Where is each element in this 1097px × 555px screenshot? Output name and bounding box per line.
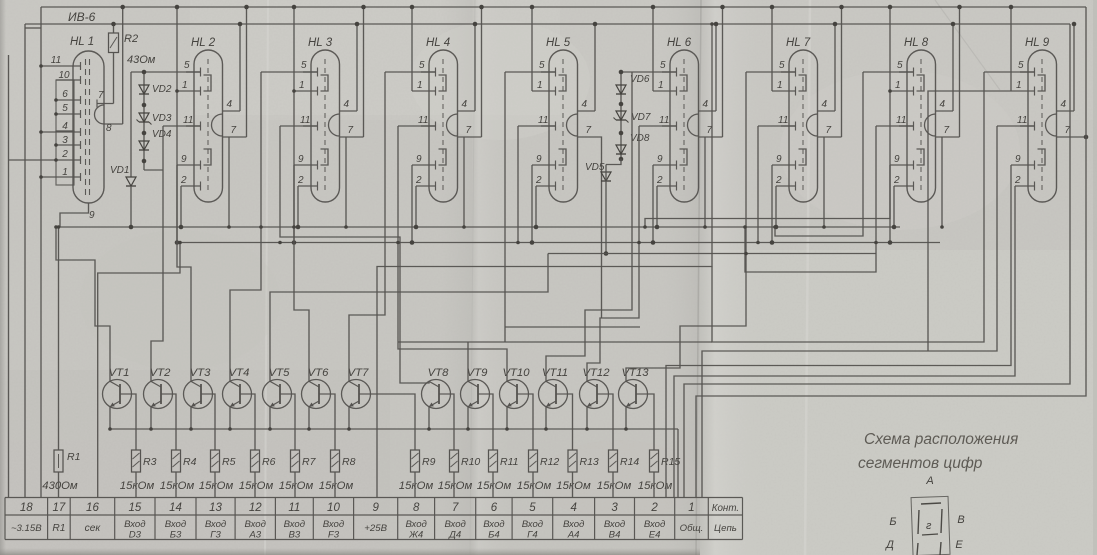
wire HL2 pin 1 feed from bus A (176, 7, 178, 91)
svg-text:15кОм: 15кОм (319, 480, 354, 492)
wire VT7 base to R9 (371, 394, 416, 450)
svg-text:3: 3 (62, 135, 68, 146)
svg-text:5: 5 (301, 60, 307, 71)
transistor VT2 (144, 380, 173, 409)
wire HL6 pin11 stub ext (639, 125, 677, 127)
svg-text:7: 7 (98, 90, 104, 101)
svg-text:сек: сек (85, 523, 102, 534)
wire heater bus 2 (178, 242, 940, 244)
diode VD3 (zener) (139, 113, 149, 122)
svg-text:2: 2 (297, 175, 304, 186)
HL6 pin 7 lead (699, 136, 723, 138)
svg-text:5: 5 (779, 60, 785, 71)
svg-text:R11: R11 (500, 456, 518, 468)
HL3 pin 2 stub (298, 185, 318, 187)
svg-text:14: 14 (169, 502, 182, 514)
wire nested net HL9 pin 9 (666, 165, 1011, 498)
resistor R6 15 kOhm (251, 450, 260, 472)
svg-text:HL 9: HL 9 (1025, 37, 1050, 49)
svg-text:F3: F3 (328, 530, 340, 541)
svg-text:5: 5 (539, 60, 545, 71)
svg-text:Вход: Вход (323, 519, 344, 530)
resistor R15 15 kOhm (650, 450, 659, 472)
svg-text:D3: D3 (129, 530, 142, 541)
wire VD2-VD4 chain vertical (143, 72, 145, 170)
resistor R10 15 kOhm (450, 450, 459, 472)
svg-text:VT3: VT3 (190, 367, 211, 379)
wire HL2 pin 9 drop to heater bus 2 (176, 165, 178, 243)
svg-text:HL 1: HL 1 (70, 36, 94, 48)
wire net to VT9 collector (504, 72, 506, 342)
junction dots VD chain 2 (619, 70, 624, 75)
svg-text:1: 1 (537, 80, 543, 91)
segment B (left) (918, 510, 919, 534)
wire VT12 base to R14 (609, 394, 614, 450)
svg-text:4: 4 (462, 99, 468, 110)
wire VT5 base to R7 (292, 394, 296, 450)
HL1 pin 2 (9, 159, 81, 161)
HL1 pin 1 (41, 176, 81, 178)
svg-text:ИВ-6: ИВ-6 (68, 10, 96, 24)
wire HL8 pin 2 drop to heater bus 1 (893, 186, 895, 227)
wire VT9 emitter to common bus (467, 407, 469, 429)
svg-text:~3.15В: ~3.15В (11, 523, 42, 534)
svg-text:HL 6: HL 6 (667, 37, 692, 49)
wire left vertical to pin 18 (~3.15V) (8, 55, 10, 498)
svg-text:1: 1 (688, 502, 694, 514)
svg-text:Д: Д (884, 539, 894, 551)
wire VT9 collector drop (467, 342, 469, 382)
svg-text:4: 4 (570, 502, 576, 514)
wire VT4 base to R6 (252, 394, 256, 450)
wire net to VT11 collector (546, 72, 632, 382)
svg-text:4: 4 (227, 99, 233, 110)
wire HL9 pin11 stub ext (997, 125, 1035, 127)
wire VT7 emitter to common bus (348, 407, 350, 429)
wire HL5 pin 2 drop to heater bus 1 (535, 186, 537, 227)
wire VT12 emitter to common bus (586, 407, 588, 429)
HL2 pin 11 stub (186, 125, 201, 127)
wire R1 top to heater bus 1 (58, 227, 60, 450)
HL9 pin 5 stub (1020, 71, 1035, 73)
wire net +25V feed (377, 24, 712, 498)
HL4 pin 1 stub (412, 90, 436, 92)
svg-text:HL 8: HL 8 (904, 37, 929, 49)
HL6 pin 4 lead (699, 110, 717, 112)
wire HL8 pin11 stub ext (876, 125, 914, 127)
svg-text:17: 17 (53, 502, 66, 514)
transistor VT1 (103, 380, 132, 409)
svg-text:Вход: Вход (522, 519, 543, 530)
wire HL7 pin 2 drop to heater bus 1 (775, 186, 777, 227)
svg-text:R9: R9 (422, 456, 436, 468)
indicator tube HL9 (1028, 50, 1057, 202)
svg-text:HL 4: HL 4 (426, 37, 450, 49)
segment diagram digit box (911, 496, 950, 555)
wire HL6 pin 1 feed from bus A (652, 7, 654, 91)
wire HL8 pin 4 riser to bus B (952, 24, 954, 111)
HL2 pin 7 lead (223, 136, 247, 138)
wire HL4 pin 1 feed from bus A (411, 7, 413, 91)
svg-text:+25В: +25В (364, 523, 387, 534)
svg-text:4: 4 (582, 99, 588, 110)
svg-text:7: 7 (586, 125, 592, 136)
indicator tube HL5 (549, 50, 578, 202)
wire VT11 emitter to common bus (545, 407, 547, 429)
HL1 pin group box lower (56, 131, 74, 185)
svg-text:Общ.: Общ. (680, 523, 704, 534)
wire VT8 emitter to common bus (428, 407, 430, 429)
wire top bus B (25, 23, 1070, 25)
svg-text:VT1: VT1 (109, 367, 130, 379)
wire R11 to terminal (492, 472, 494, 498)
transistor VT8 (422, 380, 451, 409)
transistor VT13 (619, 380, 648, 409)
wire net to VT12 collector (587, 126, 639, 382)
wire net to VT8 collector (280, 126, 429, 383)
svg-text:15кОм: 15кОм (438, 480, 473, 492)
svg-text:9: 9 (372, 502, 379, 514)
resistor R12 15 kOhm (529, 450, 538, 472)
wire VT11 base to R13 (568, 394, 573, 450)
transistor VT10 (500, 380, 529, 409)
svg-text:R1: R1 (67, 451, 80, 463)
resistor R5 15 kOhm (211, 450, 220, 472)
svg-text:4: 4 (940, 99, 946, 110)
wire HL6 pin 7 riser to bus A (722, 7, 724, 137)
wire R4 to terminal (175, 472, 177, 498)
svg-text:9: 9 (894, 154, 900, 165)
wire mid horizontal upper (548, 253, 876, 255)
svg-text:7: 7 (231, 125, 237, 136)
svg-text:5: 5 (529, 502, 536, 514)
wire net to VT5 collector (270, 254, 548, 382)
svg-text:3: 3 (611, 502, 618, 514)
HL1 pin 4 (41, 131, 81, 133)
svg-text:R14: R14 (620, 456, 639, 468)
wire long mid horizontal (398, 341, 712, 343)
HL7 pin 2 stub (776, 185, 796, 187)
wire HL3 pin 1 feed from bus A (293, 7, 295, 91)
diode VD2 (139, 85, 149, 94)
svg-text:4: 4 (822, 99, 828, 110)
HL6 pin 2 stub (657, 185, 677, 187)
wire HL3 pin5 stub ext (261, 71, 318, 73)
wire net to VT6 collector (294, 91, 309, 382)
svg-text:13: 13 (209, 502, 222, 514)
wire HL4 pin 7 branch to heater bus (463, 137, 465, 227)
transistor VT4 (223, 380, 252, 409)
HL8 pin 4 lead (936, 110, 954, 112)
transistor VT9 (461, 380, 490, 409)
resistor R7 15 kOhm (291, 450, 300, 472)
HL8 pin 7 lead (936, 136, 960, 138)
svg-text:7: 7 (452, 502, 459, 514)
svg-text:В4: В4 (609, 530, 621, 541)
svg-text:VD8: VD8 (630, 133, 650, 144)
svg-text:R6: R6 (262, 456, 276, 468)
wire HL4 pin11 stub ext (398, 125, 436, 127)
svg-text:15кОм: 15кОм (199, 480, 234, 492)
HL3 pin 5 stub (303, 71, 318, 73)
wire HL9 pin1 ext drop (928, 91, 1011, 351)
HL1 pin 5 (56, 113, 81, 115)
HL4 pin 9 stub (412, 164, 436, 166)
terminal table frame (5, 498, 743, 540)
HL9 pin 9 stub (1011, 164, 1035, 166)
junction dots VD chain (142, 70, 147, 75)
wire net HL7 to heater bus (757, 126, 759, 243)
HL5 pin 11 stub (541, 125, 556, 127)
svg-text:Вход: Вход (245, 519, 266, 530)
svg-text:А4: А4 (567, 530, 580, 541)
svg-text:15кОм: 15кОм (399, 480, 434, 492)
svg-text:VD3: VD3 (152, 113, 172, 124)
HL9 pin 7 lead to right edge (1057, 136, 1087, 138)
wire HL2 pin 7 riser to bus A (246, 7, 248, 137)
svg-text:А: А (925, 475, 933, 487)
svg-text:R5: R5 (222, 456, 236, 468)
svg-text:2: 2 (650, 502, 658, 514)
segment D (bottom left) (917, 543, 918, 555)
svg-text:г: г (926, 520, 932, 532)
svg-text:2: 2 (415, 175, 422, 186)
svg-text:Г4: Г4 (527, 530, 538, 541)
wire HL7 pin11 stub ext (758, 125, 796, 127)
wire R5 to terminal (214, 472, 216, 498)
svg-text:5: 5 (184, 60, 190, 71)
svg-text:7: 7 (826, 125, 832, 136)
wire VT5 emitter to common bus (269, 407, 271, 429)
svg-text:6: 6 (491, 502, 498, 514)
wire HL1 grid stub link (25, 27, 41, 29)
svg-text:R10: R10 (461, 456, 480, 468)
svg-text:18: 18 (20, 502, 33, 514)
wire R2 bottom to HL1 pin 7 (113, 53, 115, 104)
indicator tube HL3 (311, 50, 340, 202)
wire HL4 pin 7 riser to bus A (481, 7, 483, 137)
HL3 pin 1 stub (294, 90, 318, 92)
wire HL3 pin 2 drop to heater bus 1 (297, 186, 299, 227)
wire HL3 pin 7 branch to heater bus (345, 137, 347, 227)
wire heater bus 1 (56, 226, 900, 228)
resistor R9 15 kOhm (411, 450, 420, 472)
svg-text:Вход: Вход (563, 519, 584, 530)
wire VT6 base to R8 (331, 394, 336, 450)
segment E (bottom right) (940, 542, 941, 555)
wire nested net HL9 pin 2 (674, 186, 1015, 498)
svg-text:R2: R2 (124, 33, 138, 45)
svg-text:1: 1 (417, 80, 423, 91)
svg-text:VT6: VT6 (308, 367, 329, 379)
wire VT2 base to R4 (173, 394, 177, 450)
wire R15 to terminal (653, 472, 655, 498)
wire VT4 emitter to common bus (229, 407, 231, 429)
svg-text:VD1: VD1 (110, 165, 129, 176)
svg-text:Вход: Вход (205, 519, 226, 530)
svg-text:43Ом: 43Ом (127, 54, 156, 66)
diode VD6 (616, 85, 626, 94)
resistor R8 15 kOhm (331, 450, 340, 472)
svg-text:9: 9 (1015, 154, 1021, 165)
HL6 pin 9 stub (653, 164, 677, 166)
svg-text:2: 2 (893, 175, 900, 186)
svg-text:В: В (957, 514, 964, 526)
svg-text:15кОм: 15кОм (638, 480, 673, 492)
svg-text:4: 4 (703, 99, 709, 110)
wire R7 to terminal (294, 472, 296, 498)
svg-text:11: 11 (778, 115, 788, 126)
svg-text:430Ом: 430Ом (42, 480, 78, 492)
wire HL2 pin5 feed (131, 71, 201, 73)
HL4 pin 11 stub (421, 125, 436, 127)
svg-text:9: 9 (776, 154, 782, 165)
svg-text:R13: R13 (580, 456, 599, 468)
svg-text:2: 2 (535, 175, 542, 186)
wire VD1 branch (130, 72, 132, 177)
wire net to VT2 collector (151, 126, 163, 382)
wire VT13 emitter to common bus (625, 407, 627, 429)
HL5 pin 1 stub (532, 90, 556, 92)
wire top bus A (+anode supply) (41, 6, 1086, 8)
wire left vertical from bus B to pin 18 (24, 24, 26, 498)
wire HL6 pin5 feed (621, 71, 677, 73)
resistor R2 43 Ohm (109, 33, 119, 53)
svg-text:2: 2 (656, 175, 663, 186)
wire net HL8 pin5 drop (775, 72, 863, 236)
HL1 pin 3 (56, 144, 81, 146)
svg-text:5: 5 (62, 103, 68, 114)
svg-text:15кОм: 15кОм (120, 480, 155, 492)
wire R10 to terminal (453, 472, 455, 498)
diode VD1 (126, 177, 136, 186)
svg-text:VD5: VD5 (585, 162, 605, 173)
svg-text:R12: R12 (540, 456, 559, 468)
svg-text:1: 1 (62, 167, 68, 178)
svg-text:5: 5 (897, 60, 903, 71)
segment A (top) (921, 503, 941, 504)
svg-text:Вход: Вход (284, 519, 305, 530)
svg-text:7: 7 (466, 125, 472, 136)
diode VD5 (601, 172, 611, 181)
HL5 pin 7 lead drop (578, 137, 602, 318)
HL8 pin 1 stub (890, 90, 914, 92)
indicator tube HL8 (907, 50, 936, 202)
svg-text:8: 8 (106, 123, 112, 134)
wire VT3 emitter to common bus (190, 407, 192, 429)
wire HL4 pin 9 drop to heater bus 2 (411, 165, 413, 243)
transistor VT5 (263, 380, 292, 409)
svg-text:4: 4 (62, 121, 68, 132)
wire VT2 emitter to common bus (150, 407, 152, 429)
HL7 pin 7 lead (818, 136, 842, 138)
junction dots HL1 left (39, 64, 43, 68)
wire VT10 emitter to common bus (506, 407, 508, 429)
transistor VT6 (302, 380, 331, 409)
indicator tube HL6 (670, 50, 699, 202)
wire HL7 pin 9 drop to heater bus 2 (771, 165, 773, 243)
wire HL6 pin 2 drop to heater bus 1 (656, 186, 658, 227)
wire R9 to terminal (414, 472, 416, 498)
svg-text:7: 7 (348, 125, 354, 136)
svg-text:1: 1 (658, 80, 664, 91)
HL5 pin 2 stub (536, 185, 556, 187)
junction dots on buses (54, 225, 58, 229)
svg-text:Вход: Вход (644, 519, 665, 530)
wire net to VT1 collector (56, 227, 110, 382)
svg-text:11: 11 (1017, 115, 1027, 126)
wire HL9 pin 1 feed from bus A (1010, 7, 1012, 91)
HL7 pin 9 stub (772, 164, 796, 166)
svg-text:9: 9 (181, 154, 187, 165)
segment V (right) (941, 509, 942, 533)
wire HL4 pin 2 drop to heater bus 1 (415, 186, 417, 227)
wire HL5 pin11 stub ext (518, 125, 556, 127)
HL3 pin 9 stub (294, 164, 318, 166)
svg-text:15кОм: 15кОм (517, 480, 552, 492)
wire HL6 pin 9 drop to heater bus 2 (652, 165, 654, 243)
wire left vertical from bus A to pin 18 (40, 7, 42, 498)
svg-text:12: 12 (249, 502, 262, 514)
HL4 pin 5 stub (421, 71, 436, 73)
svg-text:15кОм: 15кОм (556, 480, 591, 492)
HL5 pin 4 lead (578, 110, 596, 112)
wire VT3 base to R5 (213, 394, 216, 450)
wire HL5 pin 4 riser to bus B (594, 24, 596, 111)
svg-text:16: 16 (86, 502, 99, 514)
svg-text:Е: Е (955, 539, 963, 551)
HL7 pin 11 stub (781, 125, 796, 127)
resistor R1 430 Ohm (54, 450, 63, 472)
resistor R13 15 kOhm (568, 450, 577, 472)
svg-text:11: 11 (288, 502, 300, 514)
wire R2 top to bus B (113, 24, 115, 33)
HL9 pin 11 stub (1020, 125, 1035, 127)
svg-text:2: 2 (61, 149, 68, 160)
svg-text:7: 7 (944, 125, 950, 136)
wire R1 bottom to terminal 17 (58, 472, 60, 498)
svg-text:R8: R8 (342, 456, 356, 468)
wire net to VT4 collector (230, 72, 261, 382)
wire emitter common bus (110, 428, 678, 430)
svg-text:R4: R4 (183, 456, 197, 468)
svg-text:Вход: Вход (165, 519, 186, 530)
svg-text:11: 11 (51, 55, 61, 66)
svg-text:2: 2 (1014, 175, 1021, 186)
wire VD6-VD8 chain vertical (620, 72, 622, 159)
transistor VT11 (539, 380, 568, 409)
wire mid deco (505, 326, 640, 328)
wire R12 to terminal (532, 472, 534, 498)
svg-text:VT2: VT2 (150, 367, 171, 379)
HL1 pin 10 (56, 79, 81, 81)
wire HL3 pin 7 riser to bus A (363, 7, 365, 137)
wire net to VT13 collector (626, 72, 746, 382)
svg-text:8: 8 (413, 502, 420, 514)
wire HL8 pin 7 branch to heater bus (941, 137, 943, 227)
HL8 pin 11 stub (899, 125, 914, 127)
wire HL8 pin 9 drop to heater bus 2 (889, 165, 891, 243)
svg-text:Вход: Вход (483, 519, 504, 530)
svg-text:HL 7: HL 7 (786, 37, 811, 49)
svg-text:VT4: VT4 (229, 367, 250, 379)
svg-text:11: 11 (659, 115, 669, 126)
svg-text:15кОм: 15кОм (160, 480, 195, 492)
wire net to VT3 collector (177, 91, 191, 382)
HL2 pin 4 lead (223, 110, 241, 112)
svg-text:5: 5 (660, 60, 666, 71)
transistor VT7 (342, 380, 371, 409)
